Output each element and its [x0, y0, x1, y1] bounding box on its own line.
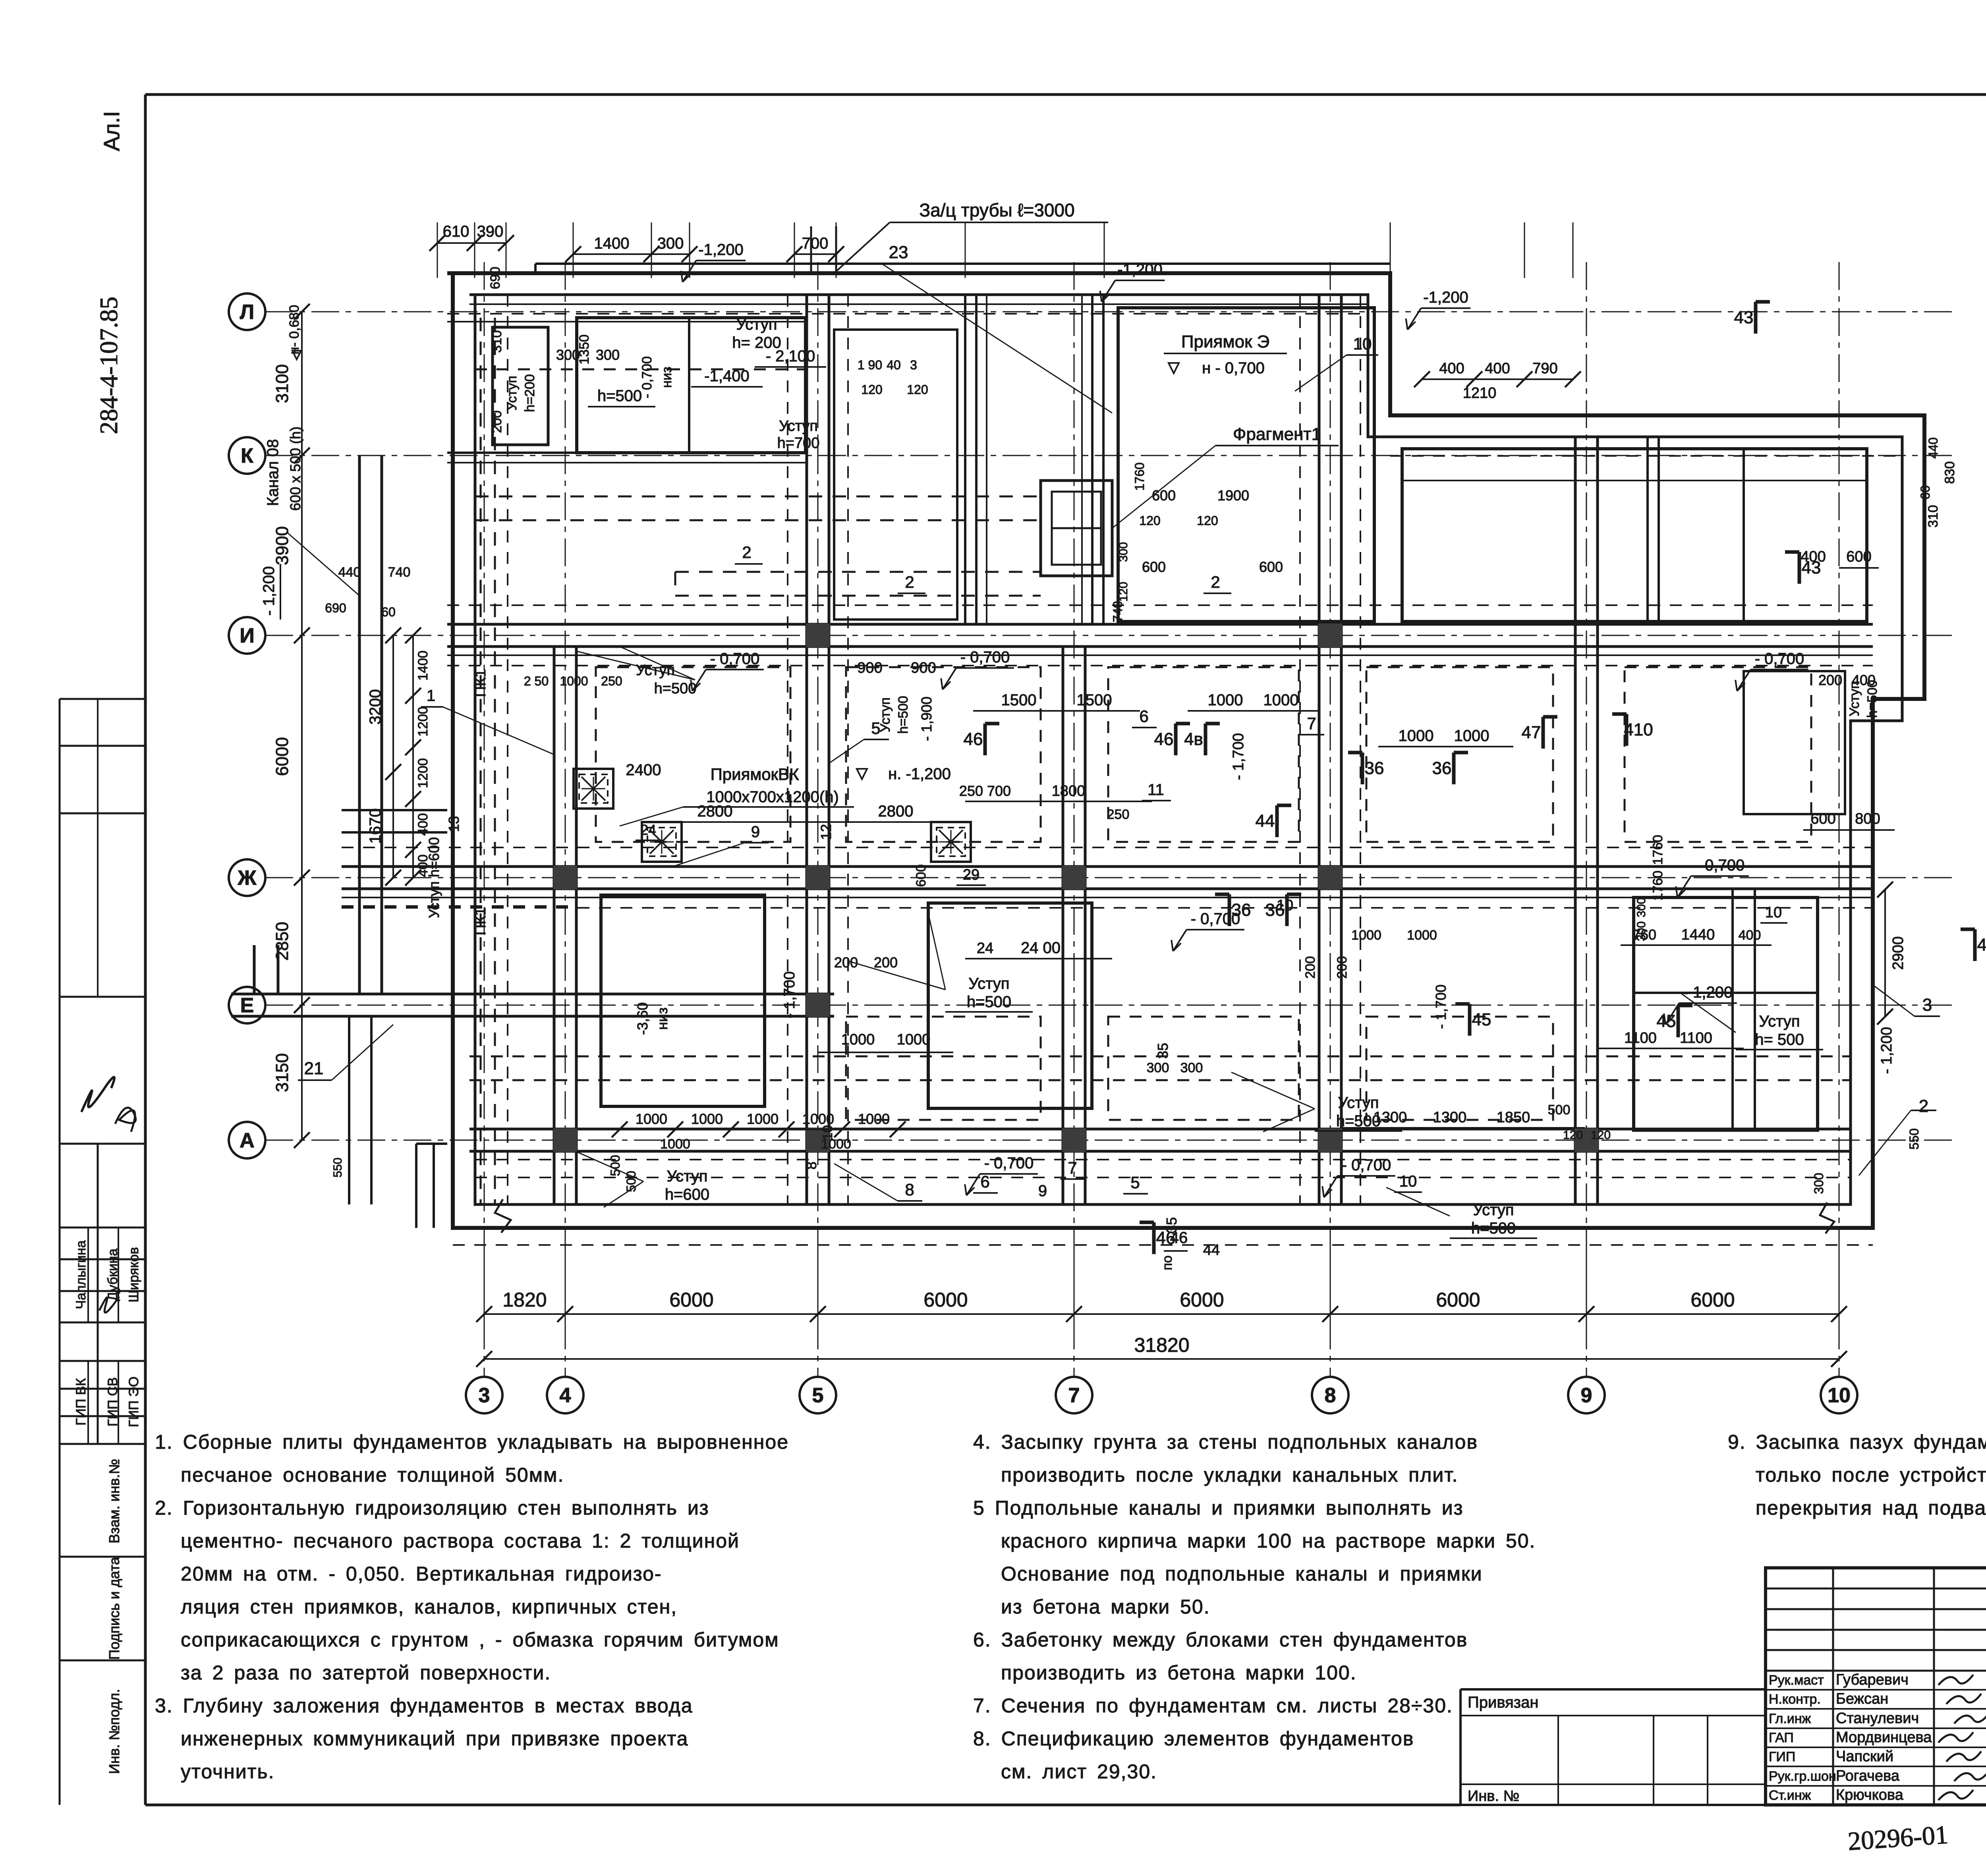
divider in top right rooms: [1646, 437, 1649, 621]
svg-text:2 50: 2 50: [524, 674, 549, 688]
priamok hatched squares: [574, 769, 613, 809]
svg-text:2900: 2900: [1890, 936, 1907, 970]
svg-text:1400: 1400: [594, 235, 630, 252]
svg-text:6: 6: [980, 1172, 989, 1191]
svg-text:300: 300: [1180, 1060, 1203, 1075]
svg-text:перекрытия над подвалом.: перекрытия над подвалом.: [1756, 1497, 1986, 1519]
svg-text:310: 310: [1926, 505, 1941, 528]
svg-text:1000: 1000: [897, 1031, 931, 1048]
svg-text:6000: 6000: [923, 1289, 968, 1311]
bottom-left foundation step: [415, 1144, 417, 1228]
axis line К: [265, 455, 1958, 456]
svg-text:6: 6: [1139, 707, 1148, 726]
wall on axis 4: [553, 647, 556, 1204]
svg-text:36: 36: [1432, 759, 1452, 778]
flag 47 T410: [1542, 717, 1545, 749]
long dashed lines: [475, 369, 806, 371]
dashed foundation plate edges: [596, 667, 790, 842]
svg-text:Канал 08: Канал 08: [264, 439, 282, 506]
svg-text:284-4-107.85: 284-4-107.85: [95, 297, 123, 434]
title block outer: [1766, 1568, 1986, 1805]
svg-text:3: 3: [1922, 995, 1932, 1015]
svg-text:1100: 1100: [1624, 1030, 1657, 1046]
svg-text:Уступ: Уступ: [1338, 1094, 1379, 1112]
svg-text:120: 120: [1117, 582, 1130, 602]
svg-text:цементно- песчаного раствора: цементно- песчаного раствора состава 1: …: [181, 1530, 740, 1552]
svg-text:1760: 1760: [1132, 462, 1147, 490]
wall on axis 7: [1062, 647, 1064, 1204]
flag 43 44 mid right: [1798, 552, 1801, 584]
svg-text:2. Горизонтальную гидроизоляц: 2. Горизонтальную гидроизоляцию стен вып…: [155, 1497, 709, 1519]
svg-text:Гл.инж: Гл.инж: [1769, 1711, 1811, 1726]
wall on axis 5: [806, 295, 808, 1204]
svg-text:120: 120: [1591, 1129, 1611, 1142]
wall on axis Ж: [342, 865, 1873, 868]
svg-text:31820: 31820: [1134, 1334, 1189, 1356]
svg-text:500: 500: [608, 1155, 622, 1176]
svg-text:43: 43: [1734, 308, 1754, 327]
axis circle 10: [1821, 1377, 1857, 1413]
svg-text:- 0,700: - 0,700: [1342, 1156, 1391, 1174]
svg-text:Уступ: Уступ: [779, 418, 818, 434]
svg-text:300: 300: [556, 347, 580, 363]
svg-text:1000: 1000: [858, 1111, 890, 1127]
svg-text:3150: 3150: [272, 1053, 292, 1092]
svg-text:низ: низ: [659, 367, 674, 388]
svg-text:900: 900: [911, 660, 936, 676]
svg-text:Уступ: Уступ: [504, 376, 520, 411]
axis line 10: [1839, 262, 1840, 1377]
svg-text:- 1,700: - 1,700: [1230, 733, 1247, 780]
stamp column dividers: [60, 698, 145, 700]
svg-text:300: 300: [1117, 542, 1130, 562]
svg-text:ляция стен приямков, канало: ляция стен приямков, каналов, кирпичных …: [181, 1596, 677, 1618]
svg-text:200: 200: [874, 954, 898, 971]
svg-text:120: 120: [861, 382, 882, 397]
dashed lines above bottom wall: [475, 1177, 1851, 1178]
svg-text:10: 10: [1828, 1384, 1851, 1407]
svg-text:-1,200: -1,200: [1117, 261, 1162, 278]
svg-text:440: 440: [1926, 437, 1940, 458]
svg-text:Уступ: Уступ: [1473, 1201, 1514, 1219]
svg-text:610: 610: [443, 223, 469, 240]
svg-text:ПК1: ПК1: [472, 669, 489, 697]
svg-text:120: 120: [1563, 1129, 1583, 1142]
thin parallel inner line И: [447, 654, 1873, 656]
svg-text:производить после укладки к: производить после укладки канальных плит…: [1001, 1464, 1459, 1486]
svg-text:h=500: h=500: [1471, 1220, 1516, 1237]
axis line И: [265, 635, 1958, 636]
svg-text:А: А: [240, 1129, 255, 1152]
svg-text:н - 0,700: н - 0,700: [1202, 359, 1265, 377]
svg-text:7: 7: [1068, 1384, 1080, 1407]
left canal lower run: [348, 1016, 350, 1204]
46 flag bottom left: [1152, 1222, 1156, 1254]
sheet frame left border (stamp column): [144, 95, 147, 1805]
svg-text:3: 3: [910, 358, 917, 372]
svg-text:120: 120: [1139, 513, 1160, 528]
svg-text:24: 24: [640, 822, 656, 838]
svg-text:45: 45: [1657, 1011, 1676, 1031]
Vн -1,200: [857, 769, 867, 779]
inner line right top rooms: [1402, 480, 1867, 481]
svg-text:400: 400: [1439, 360, 1464, 377]
svg-text:6000: 6000: [669, 1289, 713, 1311]
svg-text:4: 4: [560, 1384, 571, 1407]
svg-text:-1,200: -1,200: [698, 241, 743, 259]
svg-text:1500: 1500: [1001, 691, 1037, 709]
svg-text:10: 10: [820, 1125, 835, 1140]
svg-text:6. Забетонку между блоками: 6. Забетонку между блоками стен фундамен…: [973, 1629, 1468, 1651]
svg-text:Чапский: Чапский: [1836, 1748, 1893, 1765]
room Уступ h=800 (bottom left): [601, 895, 765, 1106]
svg-text:60: 60: [381, 605, 396, 619]
svg-text:h=200: h=200: [522, 374, 537, 412]
wall near axis А right part: [576, 1128, 1851, 1131]
top dimension 1400 300: [573, 253, 690, 255]
svg-text:690: 690: [325, 601, 346, 615]
svg-text:46: 46: [964, 730, 983, 749]
extra thin lines in duct zone: [986, 295, 987, 624]
svg-text:уточнить.: уточнить.: [181, 1760, 274, 1783]
svg-text:4в: 4в: [1184, 730, 1203, 749]
wall on axis Е (left part + canal T): [231, 993, 834, 996]
axis line 8: [1330, 262, 1331, 1377]
svg-text:9: 9: [751, 823, 760, 841]
svg-text:1210: 1210: [1463, 385, 1497, 401]
svg-text:Уступ: Уступ: [667, 1168, 707, 1185]
svg-text:- 1,700: - 1,700: [1433, 984, 1449, 1029]
axis line 4: [565, 262, 566, 1377]
axis line А: [265, 1140, 1958, 1141]
svg-text:Подпись и дата: Подпись и дата: [106, 1557, 122, 1660]
svg-text:1850: 1850: [1497, 1109, 1530, 1126]
svg-text:Бежсан: Бежсан: [1836, 1691, 1888, 1707]
svg-text:Привязан: Привязан: [1468, 1694, 1538, 1711]
svg-text:1000: 1000: [841, 1031, 875, 1048]
svg-text:9: 9: [1581, 1384, 1592, 1407]
svg-text:600: 600: [1142, 559, 1166, 575]
svg-text:Основание под подпольные к: Основание под подпольные каналы и приямк…: [1001, 1563, 1483, 1585]
svg-text:47: 47: [1522, 723, 1541, 742]
svg-text:Е: Е: [240, 994, 254, 1017]
svg-text:120: 120: [1197, 513, 1218, 528]
svg-text:3100: 3100: [272, 364, 292, 403]
wall divider right rooms: [1731, 889, 1734, 1130]
svg-text:4. Засыпку грунта за стены: 4. Засыпку грунта за стены подпольных ка…: [973, 1431, 1478, 1453]
svg-text:И: И: [240, 624, 254, 647]
svg-text:только после устройства: только после устройства пола подвала и: [1756, 1464, 1986, 1486]
svg-text:300: 300: [657, 235, 684, 252]
svg-text:н- 0,680: н- 0,680: [287, 305, 302, 355]
room between axis 5 and duct: [834, 330, 957, 620]
svg-text:1400: 1400: [415, 650, 431, 681]
svg-text:h=500: h=500: [654, 680, 697, 697]
svg-text:За/ц трубы ℓ=3000: За/ц трубы ℓ=3000: [919, 200, 1074, 220]
left dimension line: [301, 312, 303, 1140]
svg-text:60: 60: [1918, 485, 1932, 500]
svg-text:8. Спецификацию элементов ф: 8. Спецификацию элементов фундаментов: [973, 1727, 1414, 1750]
svg-text:300: 300: [596, 347, 620, 363]
wall stub left of Е: [253, 945, 256, 994]
svg-text:ГИП: ГИП: [1769, 1749, 1795, 1764]
extension lines above top wall: [437, 222, 438, 278]
svg-text:Уступ: Уступ: [1847, 681, 1862, 716]
flag 46 x2: [983, 724, 987, 755]
svg-text:800: 800: [1855, 811, 1880, 827]
svg-text:- 0,700: - 0,700: [960, 648, 1010, 666]
svg-text:7. Сечения по фундаментам: 7. Сечения по фундаментам см. листы 28÷3…: [973, 1695, 1453, 1717]
axis line 3: [484, 262, 485, 1377]
svg-text:1000: 1000: [1208, 691, 1243, 709]
sheet frame top border: [145, 93, 1986, 96]
break squiggle bottom left: [495, 1199, 511, 1233]
svg-text:8: 8: [1325, 1384, 1336, 1407]
привязан block: [1461, 1688, 1766, 1691]
svg-text:-3,60: -3,60: [634, 1002, 651, 1035]
svg-text:900: 900: [857, 660, 882, 676]
svg-text:200: 200: [1335, 956, 1350, 979]
svg-text:1000: 1000: [660, 1137, 690, 1152]
dashed plate edges along Ж: [342, 847, 1873, 848]
small room right 43: [1744, 671, 1845, 814]
svg-text:11: 11: [1148, 781, 1164, 799]
svg-text:Ст.инж: Ст.инж: [1769, 1788, 1811, 1803]
dashed plate edges along axis8 wall: [1299, 295, 1301, 1204]
stamp column inner vertical: [97, 1144, 99, 1444]
dashed plate edges along И: [447, 604, 1873, 606]
svg-text:3: 3: [479, 1384, 490, 1407]
svg-text:44: 44: [1203, 1242, 1220, 1258]
svg-text:Л: Л: [240, 301, 255, 324]
bottom dimension line (axis spacing): [484, 1313, 1839, 1315]
svg-text:- 0,700: - 0,700: [984, 1154, 1034, 1172]
rooms top-right band: [1402, 449, 1867, 621]
thin parallel inner line Ж: [342, 897, 1873, 898]
svg-text:Ал.I: Ал.I: [99, 111, 124, 151]
svg-text:ГИП СВ: ГИП СВ: [105, 1377, 120, 1426]
svg-text:К: К: [241, 444, 253, 467]
svg-text:1820: 1820: [502, 1289, 547, 1311]
svg-text:красного кирпича марки 100: красного кирпича марки 100 на растворе м…: [1001, 1530, 1536, 1552]
thin parallel inner line top wall: [469, 303, 1368, 305]
svg-text:6000: 6000: [1690, 1289, 1735, 1311]
svg-text:ГИП ЭО: ГИП ЭО: [126, 1376, 141, 1427]
svg-text:- 0,700: - 0,700: [1695, 857, 1745, 874]
wall near axis А left part: [469, 1128, 576, 1131]
svg-text:2800: 2800: [697, 803, 733, 820]
svg-text:Н.контр.: Н.контр.: [1769, 1692, 1821, 1707]
svg-text:h=700: h=700: [777, 435, 820, 452]
svg-text:5: 5: [1130, 1173, 1140, 1192]
signature grid verticals: [1832, 1568, 1834, 1805]
svg-text:1000: 1000: [691, 1111, 723, 1127]
svg-text:6000: 6000: [272, 737, 292, 776]
top dimension 700: [794, 253, 836, 255]
svg-text:200: 200: [489, 411, 504, 433]
svg-text:- 0,700: - 0,700: [1755, 650, 1804, 668]
svg-text:43: 43: [1977, 935, 1986, 955]
svg-text:44: 44: [1256, 811, 1275, 831]
svg-text:10: 10: [1353, 334, 1372, 353]
break squiggle bottom right: [1820, 1202, 1834, 1233]
room Уступ h=500 (bottom middle): [928, 903, 1092, 1108]
svg-text:ПриямокВК: ПриямокВК: [711, 765, 799, 784]
svg-text:29: 29: [963, 867, 979, 883]
shaft box Фрагмент1: [1041, 481, 1112, 576]
duct walls (За/ц трубы): [964, 295, 966, 624]
dashed channel ПК1: [480, 318, 482, 1204]
svg-text:13: 13: [446, 816, 462, 832]
svg-text:Станулевич: Станулевич: [1836, 1710, 1919, 1727]
building envelope outer contour: [447, 273, 1924, 1228]
svg-text:по: по: [1160, 1255, 1175, 1270]
svg-text:1800: 1800: [1052, 783, 1086, 799]
axis circle 9: [1568, 1377, 1605, 1413]
svg-text:1300: 1300: [1433, 1109, 1467, 1126]
svg-text:1200: 1200: [415, 706, 431, 737]
svg-text:Фрагмент1: Фрагмент1: [1233, 425, 1321, 444]
svg-text:- 1,700: - 1,700: [781, 971, 798, 1018]
wall on axis 8: [1318, 295, 1321, 1204]
svg-text:h=500: h=500: [967, 993, 1011, 1011]
svg-text:2800: 2800: [878, 803, 914, 820]
svg-text:36: 36: [1365, 759, 1384, 778]
svg-text:н. -1,200: н. -1,200: [888, 765, 951, 783]
svg-text:- 0,700: - 0,700: [1191, 910, 1240, 928]
svg-text:300: 300: [1147, 1060, 1169, 1075]
svg-text:Уступ: Уступ: [736, 316, 777, 333]
axis circle К: [229, 437, 265, 474]
svg-text:Крючкова: Крючкова: [1836, 1787, 1904, 1803]
svg-text:2: 2: [742, 543, 751, 562]
svg-text:250: 250: [1107, 807, 1130, 822]
svg-text:- 2,100: - 2,100: [766, 347, 815, 365]
svg-text:Уступ h=600: Уступ h=600: [426, 837, 442, 918]
svg-text:- 1,200: - 1,200: [1683, 984, 1733, 1001]
svg-text:740: 740: [388, 565, 411, 580]
svg-text:1500: 1500: [1077, 691, 1112, 709]
svg-text:2: 2: [905, 573, 914, 591]
fan leader lines from уступ labels: [577, 651, 695, 680]
svg-text:5 Подпольные каналы и приям: 5 Подпольные каналы и приямки выполнять …: [973, 1497, 1464, 1519]
room: уступ h=200 cell top-left: [493, 327, 548, 445]
svg-text:740: 740: [1111, 601, 1125, 622]
svg-text:1000: 1000: [802, 1111, 834, 1127]
axis circle Ж: [229, 859, 265, 896]
svg-text:1000: 1000: [1454, 727, 1489, 745]
svg-text:h= 500: h= 500: [1755, 1031, 1804, 1048]
svg-text:низ: низ: [654, 1007, 670, 1030]
dashed plate edges along axis5 wall: [787, 295, 788, 1204]
svg-text:1900: 1900: [1217, 487, 1249, 504]
svg-text:600: 600: [1259, 559, 1283, 575]
svg-text:43: 43: [1802, 558, 1821, 577]
svg-text:300: 300: [1812, 1173, 1826, 1194]
svg-text:1200: 1200: [415, 758, 431, 788]
svg-text:600: 600: [1810, 811, 1835, 827]
svg-text:1. Сборные плиты фундаментов: 1. Сборные плиты фундаментов укладывать …: [155, 1431, 789, 1453]
axis circle 3: [466, 1377, 502, 1413]
svg-text:за 2 раза по затертой п: за 2 раза по затертой поверхности.: [181, 1662, 551, 1684]
svg-text:21: 21: [304, 1059, 324, 1078]
svg-text:790: 790: [1532, 360, 1557, 377]
svg-text:1000: 1000: [1263, 691, 1299, 709]
room Приямок Э (top middle): [1118, 308, 1374, 621]
svg-text:инженерных коммуникаций: инженерных коммуникаций при привязке про…: [181, 1727, 688, 1750]
svg-text:500: 500: [1548, 1102, 1571, 1117]
svg-text:соприкасающихся с грунтом ,: соприкасающихся с грунтом , - обмазка го…: [181, 1629, 779, 1651]
flag 44 / leader 11: [1275, 805, 1279, 837]
svg-text:2850: 2850: [272, 922, 292, 961]
top-left slab lines below Л: [447, 321, 806, 322]
svg-text:600: 600: [914, 865, 929, 887]
svg-text:24: 24: [977, 940, 993, 957]
svg-text:440: 440: [338, 565, 361, 580]
shaft above top wall at 700 dim: [810, 226, 812, 273]
svg-text:Дубкина: Дубкина: [105, 1249, 120, 1301]
bottom total dimension 31820: [484, 1358, 1839, 1360]
dashed edge along left wall: [507, 295, 508, 1204]
svg-text:1000: 1000: [1399, 727, 1434, 745]
axis circle 8: [1312, 1377, 1348, 1413]
svg-text:3. Глубину заложения фун: 3. Глубину заложения фундаментов в места…: [155, 1695, 693, 1717]
svg-text:1000: 1000: [636, 1111, 667, 1127]
svg-text:23: 23: [889, 243, 908, 262]
axis circle И: [229, 617, 265, 654]
svg-text:- 1,900: - 1,900: [918, 697, 935, 741]
svg-text:см. лист 29,30.: см. лист 29,30.: [1001, 1760, 1157, 1783]
wall on axis И: [447, 623, 1873, 626]
svg-text:Приямок Э: Приямок Э: [1181, 332, 1269, 351]
svg-text:400: 400: [1739, 928, 1761, 943]
svg-text:250 700: 250 700: [959, 783, 1011, 799]
building envelope inner contour: [469, 295, 1902, 1204]
svg-text:Чаплыгина: Чаплыгина: [73, 1240, 89, 1309]
svg-text:2: 2: [1919, 1096, 1928, 1116]
svg-text:Инв. №подл.: Инв. №подл.: [106, 1689, 122, 1774]
axis line 5: [817, 262, 819, 1377]
svg-text:2: 2: [1211, 573, 1220, 591]
flag 43 top right: [1754, 302, 1758, 334]
axis line Л: [265, 311, 1958, 313]
left canal walls (Канал 08): [358, 455, 361, 994]
svg-text:46: 46: [1170, 1229, 1188, 1247]
column pads (dark squares): [553, 866, 577, 890]
svg-text:250: 250: [601, 674, 622, 688]
signature grid horizontals: [1766, 1588, 1986, 1590]
axis line 9: [1586, 262, 1587, 1377]
svg-text:600: 600: [1846, 548, 1871, 565]
svg-text:Ж: Ж: [238, 867, 257, 890]
svg-text:10: 10: [1277, 897, 1293, 914]
axis circle 4: [547, 1377, 583, 1413]
svg-text:9. Засыпка пазух фундамен: 9. Засыпка пазух фундаментов возможна: [1728, 1431, 1986, 1453]
axis circle 5: [800, 1377, 836, 1413]
svg-text:1: 1: [427, 687, 435, 704]
svg-text:1760: 1760: [1650, 835, 1665, 865]
left secondary dims: [392, 635, 394, 878]
svg-text:h=500: h=500: [597, 387, 642, 405]
room bottom right: [1634, 897, 1818, 1130]
svg-text:550: 550: [1907, 1128, 1921, 1149]
svg-text:46: 46: [1154, 730, 1174, 749]
svg-text:12: 12: [818, 824, 834, 840]
svg-text:20мм на отм. - 0,050. Ве: 20мм на отм. - 0,050. Вертикальная гидро…: [181, 1563, 662, 1585]
flags 36 36 row Ж: [1228, 894, 1231, 926]
svg-text:6000: 6000: [1180, 1289, 1224, 1311]
svg-text:1000: 1000: [1407, 928, 1437, 943]
